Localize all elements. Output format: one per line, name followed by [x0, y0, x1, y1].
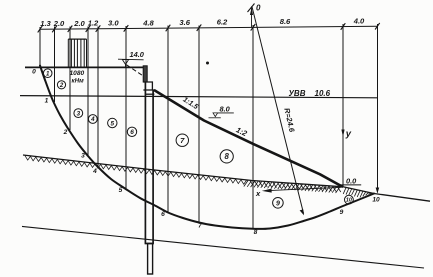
ground line right of origin through point 10: [343, 187, 430, 201]
svg-text:4: 4: [92, 168, 97, 175]
svg-text:1080: 1080: [70, 70, 85, 77]
svg-text:3.6: 3.6: [179, 18, 190, 27]
svg-text:14.0: 14.0: [130, 50, 145, 59]
dimension value labels: [40, 17, 365, 29]
svg-text:1.2: 1.2: [88, 19, 99, 28]
svg-text:0: 0: [256, 4, 261, 13]
svg-text:кНм: кНм: [72, 77, 85, 84]
svg-text:2.0: 2.0: [73, 19, 85, 28]
dimension tick slashes: [38, 23, 380, 33]
slip circle arc: [40, 66, 374, 229]
slice circle 2: [57, 81, 65, 89]
svg-text:9: 9: [276, 200, 280, 207]
slice boundary verticals: [40, 24, 377, 229]
slice circle 4: [88, 115, 97, 124]
centre O vertical with up arrow: [251, 7, 253, 28]
berth top surface line el.14.0: [25, 66, 143, 68]
svg-text:8.0: 8.0: [220, 105, 231, 114]
slope line 1:1.5 then 1:2: [154, 90, 343, 187]
deep soil layer boundary line: [22, 226, 424, 268]
svg-text:10.6: 10.6: [315, 89, 331, 98]
wall cap block (dark): [143, 66, 147, 82]
svg-text:10: 10: [346, 198, 352, 204]
x axis arrow: [266, 187, 341, 190]
svg-text:4.8: 4.8: [142, 18, 154, 27]
slice circle 8: [220, 150, 233, 163]
svg-text:6: 6: [130, 129, 134, 136]
elevation mark 14.0 with nabla: [118, 58, 144, 61]
ground hatching ticks: [25, 156, 246, 185]
svg-text:3: 3: [81, 153, 85, 160]
svg-text:5: 5: [119, 187, 123, 194]
surcharge load block 1080 kN/m: [68, 39, 86, 67]
dredge/ground line: [23, 155, 343, 187]
svg-text:0: 0: [32, 69, 36, 76]
centre O cross slash: [248, 4, 255, 13]
svg-text:8.6: 8.6: [280, 17, 291, 26]
slice circle 9: [273, 198, 284, 209]
arrowhead at point 10 bottom of x=377 vertical: [376, 188, 380, 194]
slice circle 6: [127, 127, 136, 136]
svg-text:6: 6: [161, 211, 165, 218]
svg-text:1.3: 1.3: [40, 19, 51, 28]
sheet pile: [145, 82, 154, 244]
cap step lines: [143, 82, 154, 94]
svg-text:2: 2: [63, 129, 68, 136]
hatching wedge between ground and arc right of origin: [343, 188, 371, 198]
svg-text:0.0: 0.0: [346, 177, 357, 186]
svg-text:6.2: 6.2: [217, 18, 228, 27]
svg-text:10: 10: [372, 197, 380, 204]
svg-text:УВВ: УВВ: [289, 89, 306, 98]
svg-text:2.0: 2.0: [53, 19, 65, 28]
dashed leader to wall cap: [127, 65, 145, 77]
svg-text:1: 1: [45, 98, 49, 105]
svg-text:8: 8: [254, 229, 258, 236]
pile tip: [148, 244, 153, 275]
svg-text:2: 2: [59, 83, 64, 89]
radius line R=24.6 with arrow to arc: [252, 6, 304, 214]
high water level line UVV 10.6: [20, 96, 377, 98]
y axis arrowhead on x=343 vertical: [341, 130, 344, 138]
slice circle 10: [345, 195, 354, 204]
svg-text:3: 3: [77, 110, 81, 117]
svg-text:x: x: [255, 189, 261, 198]
svg-text:3.0: 3.0: [108, 19, 119, 28]
svg-text:4.0: 4.0: [353, 17, 365, 26]
svg-text:у: у: [345, 129, 352, 140]
slice circle 7: [176, 134, 188, 146]
svg-text:5: 5: [111, 120, 115, 127]
slice circle 5: [108, 118, 117, 127]
svg-text:8: 8: [225, 152, 230, 161]
svg-text:9: 9: [340, 209, 344, 216]
small reference dot: [206, 62, 209, 65]
svg-text:7: 7: [198, 223, 202, 230]
slice circle 3: [74, 109, 83, 118]
dense hatching band 248-343: [244, 181, 341, 194]
svg-text:4: 4: [90, 116, 95, 123]
dimension line top: [40, 26, 377, 29]
slice circle 1: [43, 69, 52, 78]
